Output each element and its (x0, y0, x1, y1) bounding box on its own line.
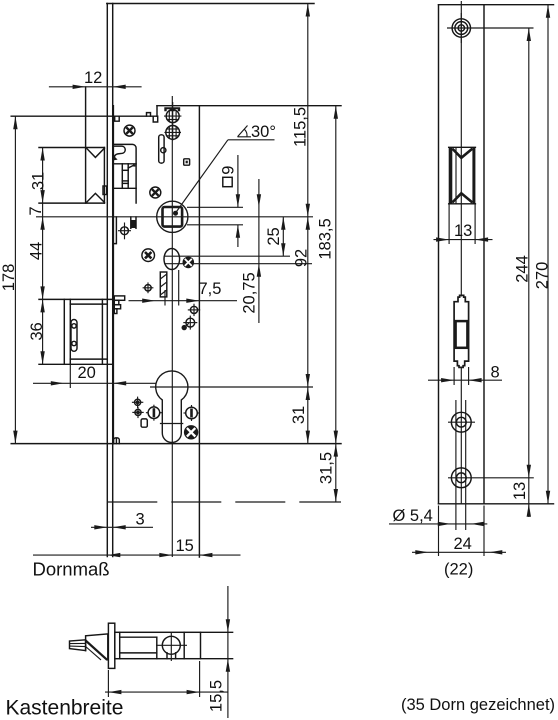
faceplate back edge (112, 4, 114, 557)
latch head top edge + extension (39, 147, 104, 149)
follower pin dot (173, 211, 178, 216)
right dim chain 115,5 / 92 / 31 (307, 4, 309, 444)
dim 270 (547, 5, 549, 504)
BOTTOM VIEW: latch detail (6, 586, 556, 720)
reference line 20,75 top (165, 263, 312, 265)
faceplate bottom edge (dashed phantom) (107, 501, 341, 503)
mounting tab bottom (114, 438, 120, 444)
mounting tab top 2 (153, 116, 158, 122)
oval stud below follower (164, 249, 180, 270)
LEFT VIEW: lock case side elevation (0, 4, 341, 580)
filled stud (182, 325, 187, 330)
square9 extension top (187, 206, 243, 208)
latch block channel left (121, 164, 123, 189)
black screw right of oval (183, 257, 195, 269)
spring anchor block (131, 220, 136, 228)
top hole axis extension (447, 27, 534, 29)
svg-text:270: 270 (533, 262, 551, 290)
Kastenbreite dim (105, 691, 228, 693)
svg-text:7: 7 (27, 206, 45, 215)
deadbolt face (63, 299, 65, 364)
cross screw B (150, 187, 161, 198)
roller right rim (472, 147, 475, 204)
svg-text:178: 178 (0, 264, 18, 292)
svg-text:Kastenbreite: Kastenbreite (6, 697, 124, 720)
case top step (156, 106, 158, 117)
deadbolt guide slot (71, 320, 77, 352)
mounting tab top 1 (115, 116, 120, 121)
adjusting screw top (hatched) (164, 102, 181, 125)
filled screw with white cross (184, 425, 198, 439)
latch block outline (113, 144, 136, 203)
deadbolt step (69, 299, 71, 364)
case front shelf + 178 extension (11, 115, 157, 117)
svg-text:31: 31 (290, 406, 308, 424)
latch tip (70, 640, 86, 651)
inner box (120, 636, 157, 638)
tick ext slot center (164, 290, 166, 306)
svg-text:92: 92 (292, 249, 310, 267)
svg-text:7,5: 7,5 (199, 280, 222, 298)
faceplate front edge (106, 4, 108, 557)
case inner vertical (119, 632, 121, 658)
case box (115, 632, 201, 658)
hatched slot piece (160, 272, 167, 297)
plate centerline (460, 1, 462, 297)
leader line to 30 deg (176, 140, 228, 212)
plate right edge (483, 5, 485, 504)
latch spring hook wedge (113, 155, 117, 160)
latch block stop pip (133, 165, 135, 167)
latch top chamfer V (87, 148, 105, 157)
adjusting screw lower (hatched) (164, 124, 181, 140)
case back edge + extension down (198, 106, 200, 557)
target mark 2 (183, 316, 197, 330)
right inner vertical (183, 632, 185, 658)
svg-text:8: 8 (491, 364, 500, 382)
svg-text:30°: 30° (251, 123, 276, 141)
screw hole bottom (456, 473, 466, 483)
roller top edge (449, 146, 476, 148)
latch aperture castle outline (454, 295, 469, 367)
svg-text:15,5: 15,5 (207, 680, 225, 712)
small rounded rect left (141, 419, 147, 427)
cross screw A (124, 125, 135, 136)
case top/bottom extensions for 15,5 (201, 631, 233, 633)
latch block divider lower (113, 187, 136, 189)
deadbolt inner vertical (101, 299, 103, 364)
svg-text:Ø 5,4: Ø 5,4 (393, 507, 433, 525)
small square with pip (184, 159, 190, 165)
roller left rim (449, 147, 453, 204)
RIGHT VIEW: faceplate front elevation (389, 1, 554, 579)
svg-text:31,5: 31,5 (318, 452, 336, 484)
channel rung 3 (122, 182, 128, 184)
cylinder axis extension (150, 386, 313, 388)
faceplate bar (108, 623, 114, 668)
svg-text:115,5: 115,5 (292, 107, 310, 147)
latch block wedge line (128, 165, 133, 168)
roller bottom edge (449, 203, 476, 205)
target mark on bolt tail (118, 223, 131, 240)
svg-text:183,5: 183,5 (316, 218, 334, 259)
latch block channel right (127, 164, 129, 189)
roller groove bottom V (452, 193, 472, 202)
svg-text:25: 25 (265, 227, 283, 245)
vertical centerline through follower and cylinder (171, 96, 173, 557)
latch hole thick rect (456, 321, 468, 348)
latch bottom chamfer V (87, 193, 105, 202)
deadbolt outer bottom (39, 363, 113, 365)
svg-text:20,75: 20,75 (240, 272, 258, 313)
svg-text:(35 Dorn gezeichnet): (35 Dorn gezeichnet) (401, 696, 555, 714)
latch block divider upper (113, 163, 136, 165)
target mark 1 (188, 304, 200, 316)
square9 dim arrows (237, 155, 239, 207)
slot screw left of cylinder (146, 405, 162, 421)
channel rung 2 (122, 180, 128, 182)
mounting bump top (147, 113, 151, 117)
latch face line + extension up to 12 dim (85, 87, 87, 203)
case top edge + extension (157, 105, 341, 107)
cross screw C (phillips bold) (142, 249, 155, 262)
angle symbol (238, 126, 252, 137)
svg-text:44: 44 (27, 242, 45, 260)
roller rim inner line (455, 147, 457, 204)
svg-text:3: 3 (136, 511, 145, 529)
Dornmass dim line + 15 (33, 554, 241, 556)
svg-text:(22): (22) (444, 561, 473, 579)
latch back line (103, 148, 105, 204)
top hole rings (458, 25, 464, 31)
dim 178 (14, 116, 16, 443)
svg-text:9: 9 (220, 166, 238, 175)
latch spring hook (113, 146, 125, 158)
svg-text:13: 13 (454, 222, 472, 240)
small target mark below screw C (143, 282, 154, 293)
faceplate back narrow slot (113, 217, 116, 244)
svg-text:20: 20 (78, 364, 96, 382)
faceplate top edge + extension (107, 3, 314, 5)
square9 extension bottom (187, 224, 243, 226)
dim 15,5 (227, 586, 229, 718)
dim chain 244 / 13 (528, 28, 530, 517)
euro profile cylinder hole (156, 371, 188, 443)
bolt tail staircase (114, 296, 124, 300)
latch wedge (86, 634, 108, 660)
left dim chain 31/7/44/36 (42, 148, 44, 365)
case front edge (112, 106, 114, 444)
svg-text:13: 13 (511, 482, 529, 500)
svg-text:12: 12 (84, 69, 102, 87)
follower square hole (9mm) (163, 207, 183, 227)
tick ext oval edge (178, 270, 180, 306)
plate top edge + extension (439, 4, 554, 6)
line 25-bottom reference (165, 255, 290, 257)
roller groove top V (452, 149, 472, 158)
dim 25 (282, 217, 284, 256)
svg-text:31: 31 (29, 172, 47, 190)
svg-text:244: 244 (513, 255, 531, 283)
screw hole mid (456, 417, 466, 427)
plate bottom edge + extension (439, 503, 554, 505)
cylinder screw line (160, 423, 183, 425)
dim 7,5 (129, 300, 238, 302)
deadbolt inner bottom (70, 358, 107, 360)
small target screws left of cylinder (132, 397, 143, 408)
svg-text:36: 36 (28, 322, 46, 340)
spring slot piece (159, 135, 164, 163)
case bottom edge + extensions (11, 443, 341, 445)
hole diameter extension lines (455, 400, 457, 530)
slot screw right of cylinder (184, 405, 200, 421)
right dim chain 183,5 / 31,5 (335, 106, 337, 502)
top bracket (dark cap) (164, 107, 180, 111)
follower circle (157, 201, 188, 232)
latch guide pin (103, 186, 107, 195)
deadbolt outer top (39, 298, 113, 300)
channel rung 1 (122, 169, 128, 171)
spring slot notch circle (161, 148, 166, 153)
svg-text:24: 24 (454, 535, 472, 553)
dim 20,75 (258, 179, 260, 323)
latch head bottom edge + extension (39, 202, 104, 204)
svg-text:Dornmaß: Dornmaß (33, 559, 110, 580)
deadbolt inner top (70, 303, 107, 305)
svg-text:15: 15 (176, 537, 194, 555)
spindle circle (162, 636, 180, 654)
follower axis extension (36, 216, 313, 218)
dim 13 roller (448, 204, 450, 244)
plate left edge (438, 5, 440, 504)
